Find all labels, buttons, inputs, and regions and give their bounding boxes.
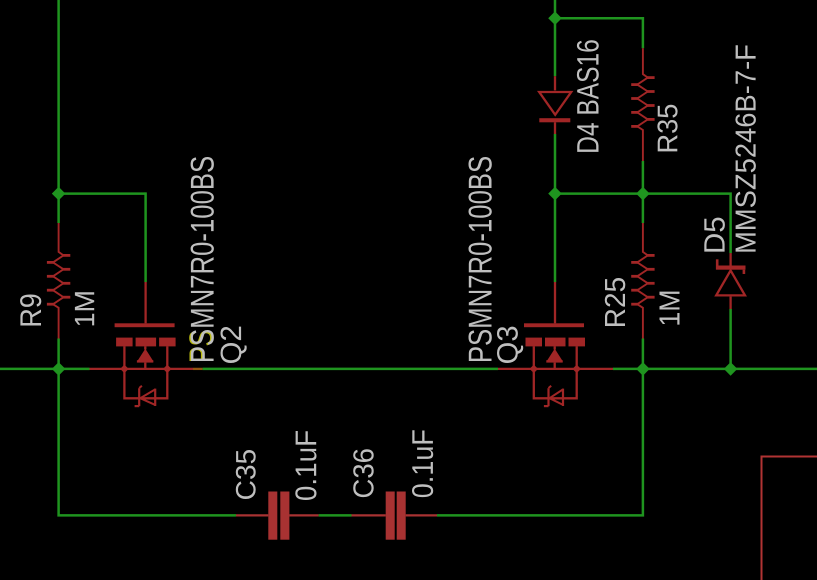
wire D4 to J6 xyxy=(554,134,557,194)
diode D4 xyxy=(539,76,571,134)
wire R35 to J5 xyxy=(642,161,645,194)
label yellow ghost PS of Q2 xyxy=(189,331,212,361)
label 0.1uF of C35 xyxy=(295,431,316,500)
node J2 junction xyxy=(52,362,66,376)
resistor R9 xyxy=(47,223,70,339)
label MMSZ5246B-7-F of D5 xyxy=(735,45,756,251)
label C35 xyxy=(236,450,256,499)
label Q2 xyxy=(221,327,247,363)
label 0.1uF of C36 xyxy=(412,430,433,497)
resistor R35 xyxy=(631,48,654,161)
label D5 xyxy=(704,218,725,252)
wire J5 to J6 horizontal xyxy=(555,192,643,195)
wire olive overlap right of Q2 xyxy=(193,368,203,370)
wire J1 down to R9 xyxy=(57,194,60,223)
wire J2 down and bottom rail xyxy=(59,369,236,516)
wire Q2 gate vertical xyxy=(144,192,147,282)
label C36 xyxy=(353,449,374,497)
wire R9 to J2 xyxy=(57,339,60,369)
label 1M of R9 xyxy=(75,292,94,325)
label R25 xyxy=(605,278,626,326)
label Q3 xyxy=(497,327,523,363)
wire net VIN vertical left xyxy=(57,0,60,194)
label R9 xyxy=(20,295,41,326)
wire rail left of Q2 xyxy=(0,368,90,371)
label 1M of R25 xyxy=(660,292,680,325)
node J1 junction xyxy=(52,187,66,201)
wire R25 to J5 xyxy=(642,194,645,223)
label R35 xyxy=(657,105,677,152)
wire J5 to D5 corner xyxy=(643,194,731,254)
node J3 junction xyxy=(636,362,650,376)
capacitor C36 xyxy=(352,492,438,540)
wire between C35 and C36 xyxy=(319,514,352,517)
resistor R25 xyxy=(631,223,654,339)
wire D5 to J4 xyxy=(729,309,732,369)
wire J3 up to R25 xyxy=(642,339,645,369)
node J4 junction xyxy=(724,362,738,376)
wire J7 to D4 xyxy=(554,18,557,76)
wire J7 to R35 corner xyxy=(555,18,643,48)
node J6 junction xyxy=(548,187,562,201)
zener diode D5 xyxy=(716,253,746,309)
wire top net vertical xyxy=(554,0,557,18)
label D4 BAS16 xyxy=(577,40,599,152)
wire J1 to Q2 gate horizontal xyxy=(59,192,146,195)
wire rail Q3 to right edge xyxy=(613,368,817,371)
label PSMN7R0-100BS of Q2 xyxy=(191,157,214,361)
transistor Q3 xyxy=(498,282,613,406)
wire rail Q2 to Q3 xyxy=(203,368,498,371)
label PSMN7R0-100BS of Q3 xyxy=(469,157,492,361)
node J5 junction xyxy=(636,187,650,201)
wire red net bottom right xyxy=(762,457,817,580)
capacitor C35 xyxy=(236,492,319,540)
wire J6 to Q3 gate xyxy=(554,194,557,282)
wire C36 to corner and up to J3 xyxy=(437,369,643,516)
node J7 junction xyxy=(548,11,562,25)
transistor Q2 xyxy=(90,282,194,406)
